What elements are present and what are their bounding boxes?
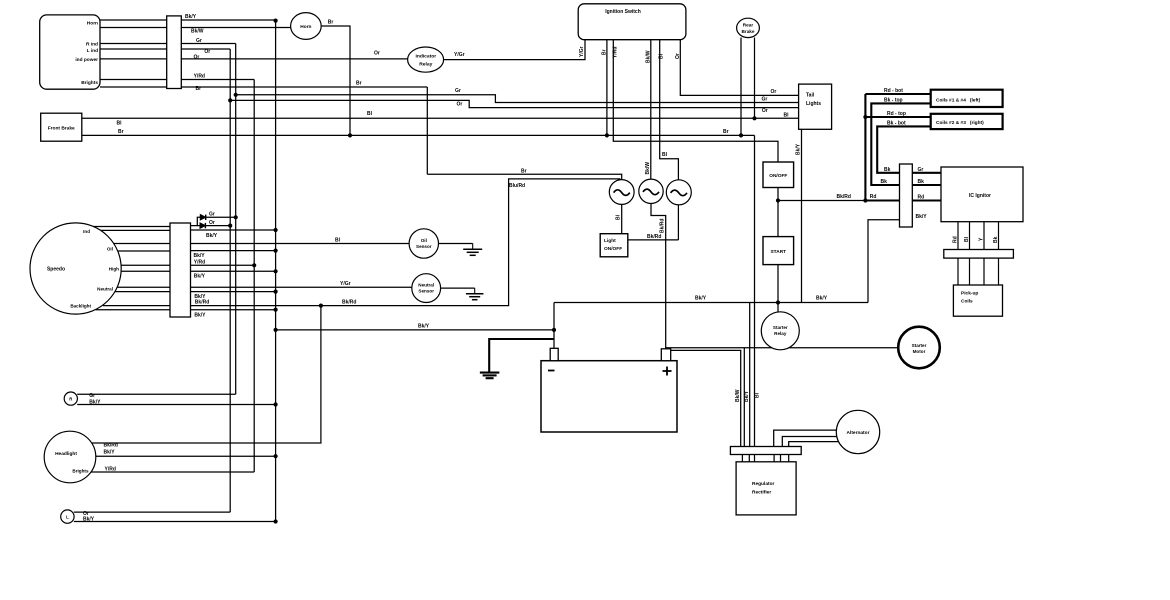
wire Bk/Y from R handlebar unit [77, 404, 275, 406]
svg-text:Bl: Bl [335, 237, 341, 243]
svg-text:Light: Light [604, 238, 616, 244]
battery positive terminal [661, 349, 670, 361]
wire Bk/Rd bulb B2 to battery positive [651, 203, 666, 349]
wire neutral sensor to ground [441, 287, 475, 289]
svg-text:Bk/Rd: Bk/Rd [104, 442, 118, 448]
IC ignitor box [941, 167, 1023, 222]
svg-text:Starter: Starter [773, 325, 788, 330]
svg-text:Lights: Lights [806, 101, 821, 107]
svg-text:Br: Br [196, 86, 202, 92]
ON/OFF switch box [763, 162, 794, 188]
svg-text:Or: Or [457, 102, 463, 108]
wire Bk/W from handlebar switch Horn pin to horn [100, 27, 291, 29]
svg-text:Gr: Gr [89, 393, 95, 399]
svg-text:Br: Br [521, 169, 527, 175]
svg-text:Speedo: Speedo [47, 267, 65, 273]
svg-text:Rectifier: Rectifier [752, 490, 771, 496]
svg-text:Oil: Oil [107, 246, 113, 251]
wire Or from L ind pin [100, 48, 230, 50]
svg-text:Bk/W: Bk/W [735, 389, 741, 402]
wire Bk-top coil feed [871, 103, 930, 185]
svg-text:Indicator: Indicator [415, 53, 436, 59]
wire speedo Oil pair to connector [114, 243, 170, 245]
svg-text:Bl: Bl [784, 112, 790, 118]
wire Bk/Y from handlebar switch Horn pin to backbone [100, 19, 276, 21]
svg-text:Bk/Y: Bk/Y [185, 14, 197, 20]
svg-text:Headlight: Headlight [55, 451, 77, 457]
svg-text:Rd: Rd [918, 195, 925, 201]
svg-text:ind power: ind power [75, 57, 98, 63]
svg-text:R: R [69, 397, 72, 402]
indicator bulb B2 [639, 179, 663, 203]
svg-text:Gr: Gr [196, 38, 202, 44]
wire from rear brake to Br bus [740, 38, 742, 136]
wire Y IC ignitor to pick-up coils [983, 222, 985, 285]
wire Bk/Y backbone vertical (left harness) [275, 20, 277, 522]
svg-text:Br: Br [602, 49, 608, 55]
connector J1 handlebar [167, 16, 182, 89]
wire Br from Brights pin [100, 86, 427, 88]
svg-text:Bk/W: Bk/W [645, 162, 651, 175]
wire battery positive tap Bk/W to regulator [671, 350, 741, 447]
wire Y/Gr from indicator relay to ignition switch [444, 40, 585, 60]
wire Y/Rd brights to headlight [91, 471, 254, 473]
wire Bk/Y backbone tap to battery negative [276, 329, 554, 331]
svg-text:START: START [770, 249, 786, 255]
svg-text:Bk/Y: Bk/Y [916, 214, 928, 220]
ground neutral sensor [466, 293, 484, 295]
svg-text:Relay: Relay [419, 62, 432, 68]
wire Bk/Y speedo neutral ground [191, 291, 276, 293]
wire bulb B3 down [677, 204, 679, 240]
svg-text:Gr: Gr [455, 88, 461, 94]
diode D1 [200, 215, 205, 220]
svg-text:Bk: Bk [918, 179, 925, 185]
wire from rear brake to Bl line [754, 38, 756, 119]
wire Bl battery positive to regulator [743, 348, 745, 447]
svg-text:Sensor: Sensor [418, 289, 434, 294]
wire bulb B1 to light switch [621, 204, 623, 234]
junction dots [274, 19, 278, 23]
headlight [44, 431, 96, 483]
wire Bk/Rd light switch to bulb B3 [628, 239, 679, 241]
wire Or vertical [229, 49, 231, 512]
starter motor [898, 327, 940, 369]
svg-text:Rd: Rd [870, 194, 877, 200]
wire Bk/Y bus up to IC ignitor connector [868, 220, 900, 303]
wire START to starter relay [777, 265, 779, 313]
wire battery negative ground branch [489, 339, 554, 372]
svg-text:Ind: Ind [83, 229, 90, 234]
wire Or staircase to tail lights [230, 100, 798, 107]
wire Br from ignition switch to Br bus [606, 40, 608, 136]
indicator bulb B1 [609, 180, 634, 205]
connector J4 IC ignitor [900, 164, 913, 227]
wire Rd IC ignitor to pick-up coils [957, 222, 959, 285]
svg-text:Motor: Motor [913, 349, 926, 354]
svg-text:Bk/Y: Bk/Y [89, 399, 101, 405]
wire Gr from R handlebar unit [77, 393, 236, 395]
indicator relay [408, 47, 444, 72]
svg-text:L ind: L ind [87, 48, 98, 54]
svg-text:Blu/Rd: Blu/Rd [509, 183, 525, 189]
svg-text:Front Brake: Front Brake [48, 126, 75, 132]
starter relay [761, 312, 799, 350]
svg-text:Alternator: Alternator [847, 430, 870, 436]
wire Bk/Y from L handlebar unit [74, 521, 276, 523]
wire Bl to oil sensor [191, 243, 410, 245]
front brake switch box [41, 113, 82, 141]
wire Bk/Y from tail lights down to bus [801, 129, 803, 302]
svg-text:Bl: Bl [616, 214, 622, 220]
wire Bk/W from ignition switch to bulb B2 [650, 40, 652, 180]
svg-text:Bk/Y: Bk/Y [206, 233, 218, 239]
wire alternator leads to regulator connector [774, 430, 837, 447]
svg-text:Bk: Bk [881, 179, 888, 185]
svg-text:Or: Or [209, 220, 215, 226]
wire Br from horn to Br bus [321, 26, 350, 135]
coils 2-3 box [931, 114, 1003, 129]
wire Rd vertical coils to IC connector [864, 94, 866, 201]
svg-text:Bl: Bl [659, 53, 665, 59]
svg-text:Gr: Gr [762, 97, 768, 103]
svg-text:Brights: Brights [72, 468, 89, 473]
wire Br vertical to indicator bulb [426, 87, 428, 174]
wire Bk/Rd branch down to headlight [92, 306, 321, 443]
svg-text:Rd - top: Rd - top [887, 111, 906, 117]
svg-text:Bk/Y: Bk/Y [796, 143, 802, 155]
neutral sensor [412, 274, 441, 303]
svg-text:Y/Gr: Y/Gr [340, 281, 351, 287]
oil sensor [409, 229, 438, 258]
L handlebar unit [61, 510, 74, 523]
connector J5 regulator [730, 447, 801, 455]
svg-text:Bl: Bl [367, 111, 373, 117]
handlebar switch box [40, 15, 100, 89]
svg-text:Bk/Rd: Bk/Rd [195, 299, 209, 305]
battery plus symbol [663, 370, 672, 372]
wire Bk/Y main bus [554, 302, 868, 304]
wire Rd into IC connector [865, 199, 899, 201]
svg-text:High: High [109, 266, 119, 271]
wire Bk/Rd speedo backlight feed [191, 179, 621, 306]
wire Bl from front brake to tail lights [82, 117, 799, 119]
svg-text:R ind: R ind [86, 41, 98, 47]
wire speedo Ind pair to connector [93, 226, 170, 228]
pick-up coils box [953, 285, 1002, 316]
wire Br horizontal to bulb B1 [427, 174, 621, 180]
wire Bk IC ignitor to pick-up coils [998, 222, 1000, 285]
svg-text:Ignition Switch: Ignition Switch [605, 9, 641, 15]
wire Bk/Y from headlight [95, 455, 276, 457]
svg-text:Or: Or [204, 49, 210, 55]
wire speedo Backlight pair to connector [103, 305, 170, 307]
svg-text:Br: Br [723, 129, 729, 135]
svg-text:Y/Rd: Y/Rd [194, 74, 205, 80]
svg-text:Rd - bot: Rd - bot [884, 88, 903, 94]
wire regulator connector stubs [741, 455, 743, 462]
svg-text:Sensor: Sensor [416, 244, 432, 249]
svg-text:Bk: Bk [884, 167, 891, 173]
wire Bk/Y speedo backlight ground [191, 309, 276, 311]
wire battery positive to starter motor [666, 347, 899, 349]
svg-text:Bl: Bl [964, 236, 970, 242]
wire Y/Rd from ignition switch to ON/OFF switch [613, 40, 778, 162]
svg-text:Oil: Oil [421, 238, 427, 243]
speedo [30, 223, 121, 314]
svg-text:Rear: Rear [743, 23, 754, 28]
svg-text:Br: Br [328, 20, 334, 26]
ground battery [480, 372, 500, 374]
tail lights box [799, 84, 832, 129]
wire Gr staircase to tail lights [236, 95, 799, 103]
wire Or from ignition switch to tail lights [680, 40, 798, 96]
wire Bk/Y bus to regulator [749, 303, 751, 448]
svg-text:Bk - top: Bk - top [884, 98, 903, 104]
svg-text:Y/Rd: Y/Rd [194, 259, 205, 265]
svg-text:Or: Or [771, 89, 777, 95]
svg-text:IC Ignitor: IC Ignitor [969, 193, 991, 199]
R handlebar unit [64, 392, 77, 405]
wire Bk/Y speedo oil ground [191, 250, 276, 252]
svg-text:Starter: Starter [912, 343, 927, 348]
wire Y/Rd speedo high beam [191, 264, 255, 266]
svg-text:Bk/Y: Bk/Y [816, 296, 828, 302]
rear brake switch [737, 18, 760, 37]
wire Bk/Rd from ON/OFF junction to IC connector [778, 200, 865, 202]
svg-text:Bk/W: Bk/W [646, 50, 652, 63]
svg-text:Coils: Coils [961, 299, 973, 305]
svg-text:Bl: Bl [117, 120, 123, 126]
svg-text:Bk/Rd: Bk/Rd [342, 299, 356, 305]
svg-text:Br: Br [118, 129, 124, 135]
svg-text:Brake: Brake [741, 29, 754, 34]
svg-text:ON/OFF: ON/OFF [769, 173, 787, 179]
wire Rd-bot coil feed [865, 93, 930, 95]
svg-text:Horn: Horn [300, 24, 311, 30]
svg-text:Bk/Y: Bk/Y [104, 450, 116, 456]
wire Bl from ignition switch to bulb B3 [660, 40, 679, 181]
wire Rd-top coil feed [865, 116, 930, 118]
wire speedo High pair to connector [121, 264, 170, 266]
indicator bulb B3 [666, 180, 691, 205]
horn [291, 13, 322, 40]
svg-text:Or: Or [374, 51, 380, 57]
svg-text:Neutral: Neutral [97, 286, 113, 291]
svg-text:Bk/Y: Bk/Y [695, 296, 707, 302]
wire Br bus from front brake [82, 134, 755, 136]
wire Rd IC connector to IC ignitor [912, 199, 941, 201]
wire Or turn-signal indicator feed [191, 225, 231, 227]
svg-text:Bk/Y: Bk/Y [194, 253, 206, 259]
svg-text:Bk: Bk [993, 236, 999, 243]
svg-text:Pick-up: Pick-up [961, 291, 978, 297]
svg-text:Backlight: Backlight [70, 303, 91, 308]
connector J2 speedo [170, 223, 191, 317]
svg-text:L: L [66, 515, 69, 520]
svg-text:Bl: Bl [662, 152, 668, 158]
svg-text:Gr: Gr [209, 212, 215, 218]
svg-text:Or: Or [675, 53, 681, 59]
svg-text:Bk/Y: Bk/Y [83, 516, 95, 522]
svg-text:Coils #2 & #3 (right): Coils #2 & #3 (right) [936, 120, 984, 126]
svg-text:Y/Gr: Y/Gr [579, 46, 585, 57]
svg-text:Neutral: Neutral [418, 283, 434, 288]
wire Gr IC connector to IC ignitor [912, 172, 941, 174]
wire Br bus turning down to regulator [754, 135, 756, 447]
diode D2 [200, 223, 205, 228]
svg-text:Bk/Rd: Bk/Rd [647, 234, 661, 240]
connector J6 pick-up [944, 250, 1014, 259]
wire Bk-bot coil feed [877, 126, 931, 172]
svg-text:Bk/Y: Bk/Y [194, 312, 206, 318]
svg-text:Y/Gr: Y/Gr [454, 52, 465, 58]
wire Gr vertical [235, 44, 237, 395]
wire Or from L handlebar unit [74, 511, 230, 513]
ignition switch box [578, 4, 686, 40]
svg-text:Bk/W: Bk/W [191, 29, 204, 35]
wire Y/Rd vertical [253, 80, 255, 473]
svg-text:Bk/Y: Bk/Y [418, 324, 430, 330]
light ON/OFF switch box [600, 234, 628, 257]
svg-text:Regulator: Regulator [752, 481, 775, 487]
wire battery negative drop [553, 303, 555, 349]
regulator rectifier box [736, 462, 796, 515]
wire Or from ind power pin to indicator relay [100, 58, 408, 60]
ground oil sensor [463, 248, 482, 250]
wire oil sensor to ground [439, 243, 473, 245]
svg-text:Bk/Rd: Bk/Rd [660, 219, 666, 233]
wire ON/OFF to START [777, 188, 779, 237]
svg-text:Bk/Rd: Bk/Rd [837, 194, 851, 200]
svg-text:Tail: Tail [806, 93, 815, 99]
svg-text:Relay: Relay [774, 331, 787, 336]
wire Bk/Y speedo high ground [191, 270, 276, 272]
battery box [541, 361, 677, 432]
svg-text:Or: Or [762, 108, 768, 114]
wire Bk/Y speedo ind ground [191, 229, 276, 231]
svg-text:Br: Br [356, 81, 362, 87]
wire Y/Gr to neutral sensor [191, 286, 412, 288]
wire Gr from R ind pin [100, 43, 236, 45]
battery minus symbol [548, 370, 555, 372]
wire Gr turn-signal indicator feed with diode [197, 217, 235, 225]
svg-text:Brights: Brights [81, 80, 98, 86]
battery negative terminal [550, 348, 558, 360]
svg-text:Bl: Bl [755, 392, 761, 398]
START switch box [763, 237, 794, 265]
svg-text:Rd: Rd [953, 236, 959, 243]
svg-text:Y/Rd: Y/Rd [613, 47, 619, 58]
svg-text:Bk - bot: Bk - bot [887, 121, 906, 127]
wire Bl IC ignitor to pick-up coils [969, 222, 971, 285]
alternator [836, 410, 879, 453]
svg-text:Horn: Horn [87, 21, 98, 27]
wire speedo Neutral pair to connector [118, 286, 171, 288]
svg-text:Or: Or [194, 54, 200, 60]
svg-text:Bk/Y: Bk/Y [194, 274, 206, 280]
svg-text:Gr: Gr [918, 167, 924, 173]
svg-text:Coils #1 & #4 (left): Coils #1 & #4 (left) [936, 97, 981, 103]
svg-text:Y/Rd: Y/Rd [105, 466, 116, 472]
wire Bk IC connector to IC ignitor [912, 184, 941, 186]
svg-text:ON/OFF: ON/OFF [604, 246, 622, 252]
coils 1-4 box [931, 90, 1003, 107]
wire Y/Rd from Brights pin [100, 79, 254, 81]
svg-text:Bk/Y: Bk/Y [744, 390, 750, 402]
